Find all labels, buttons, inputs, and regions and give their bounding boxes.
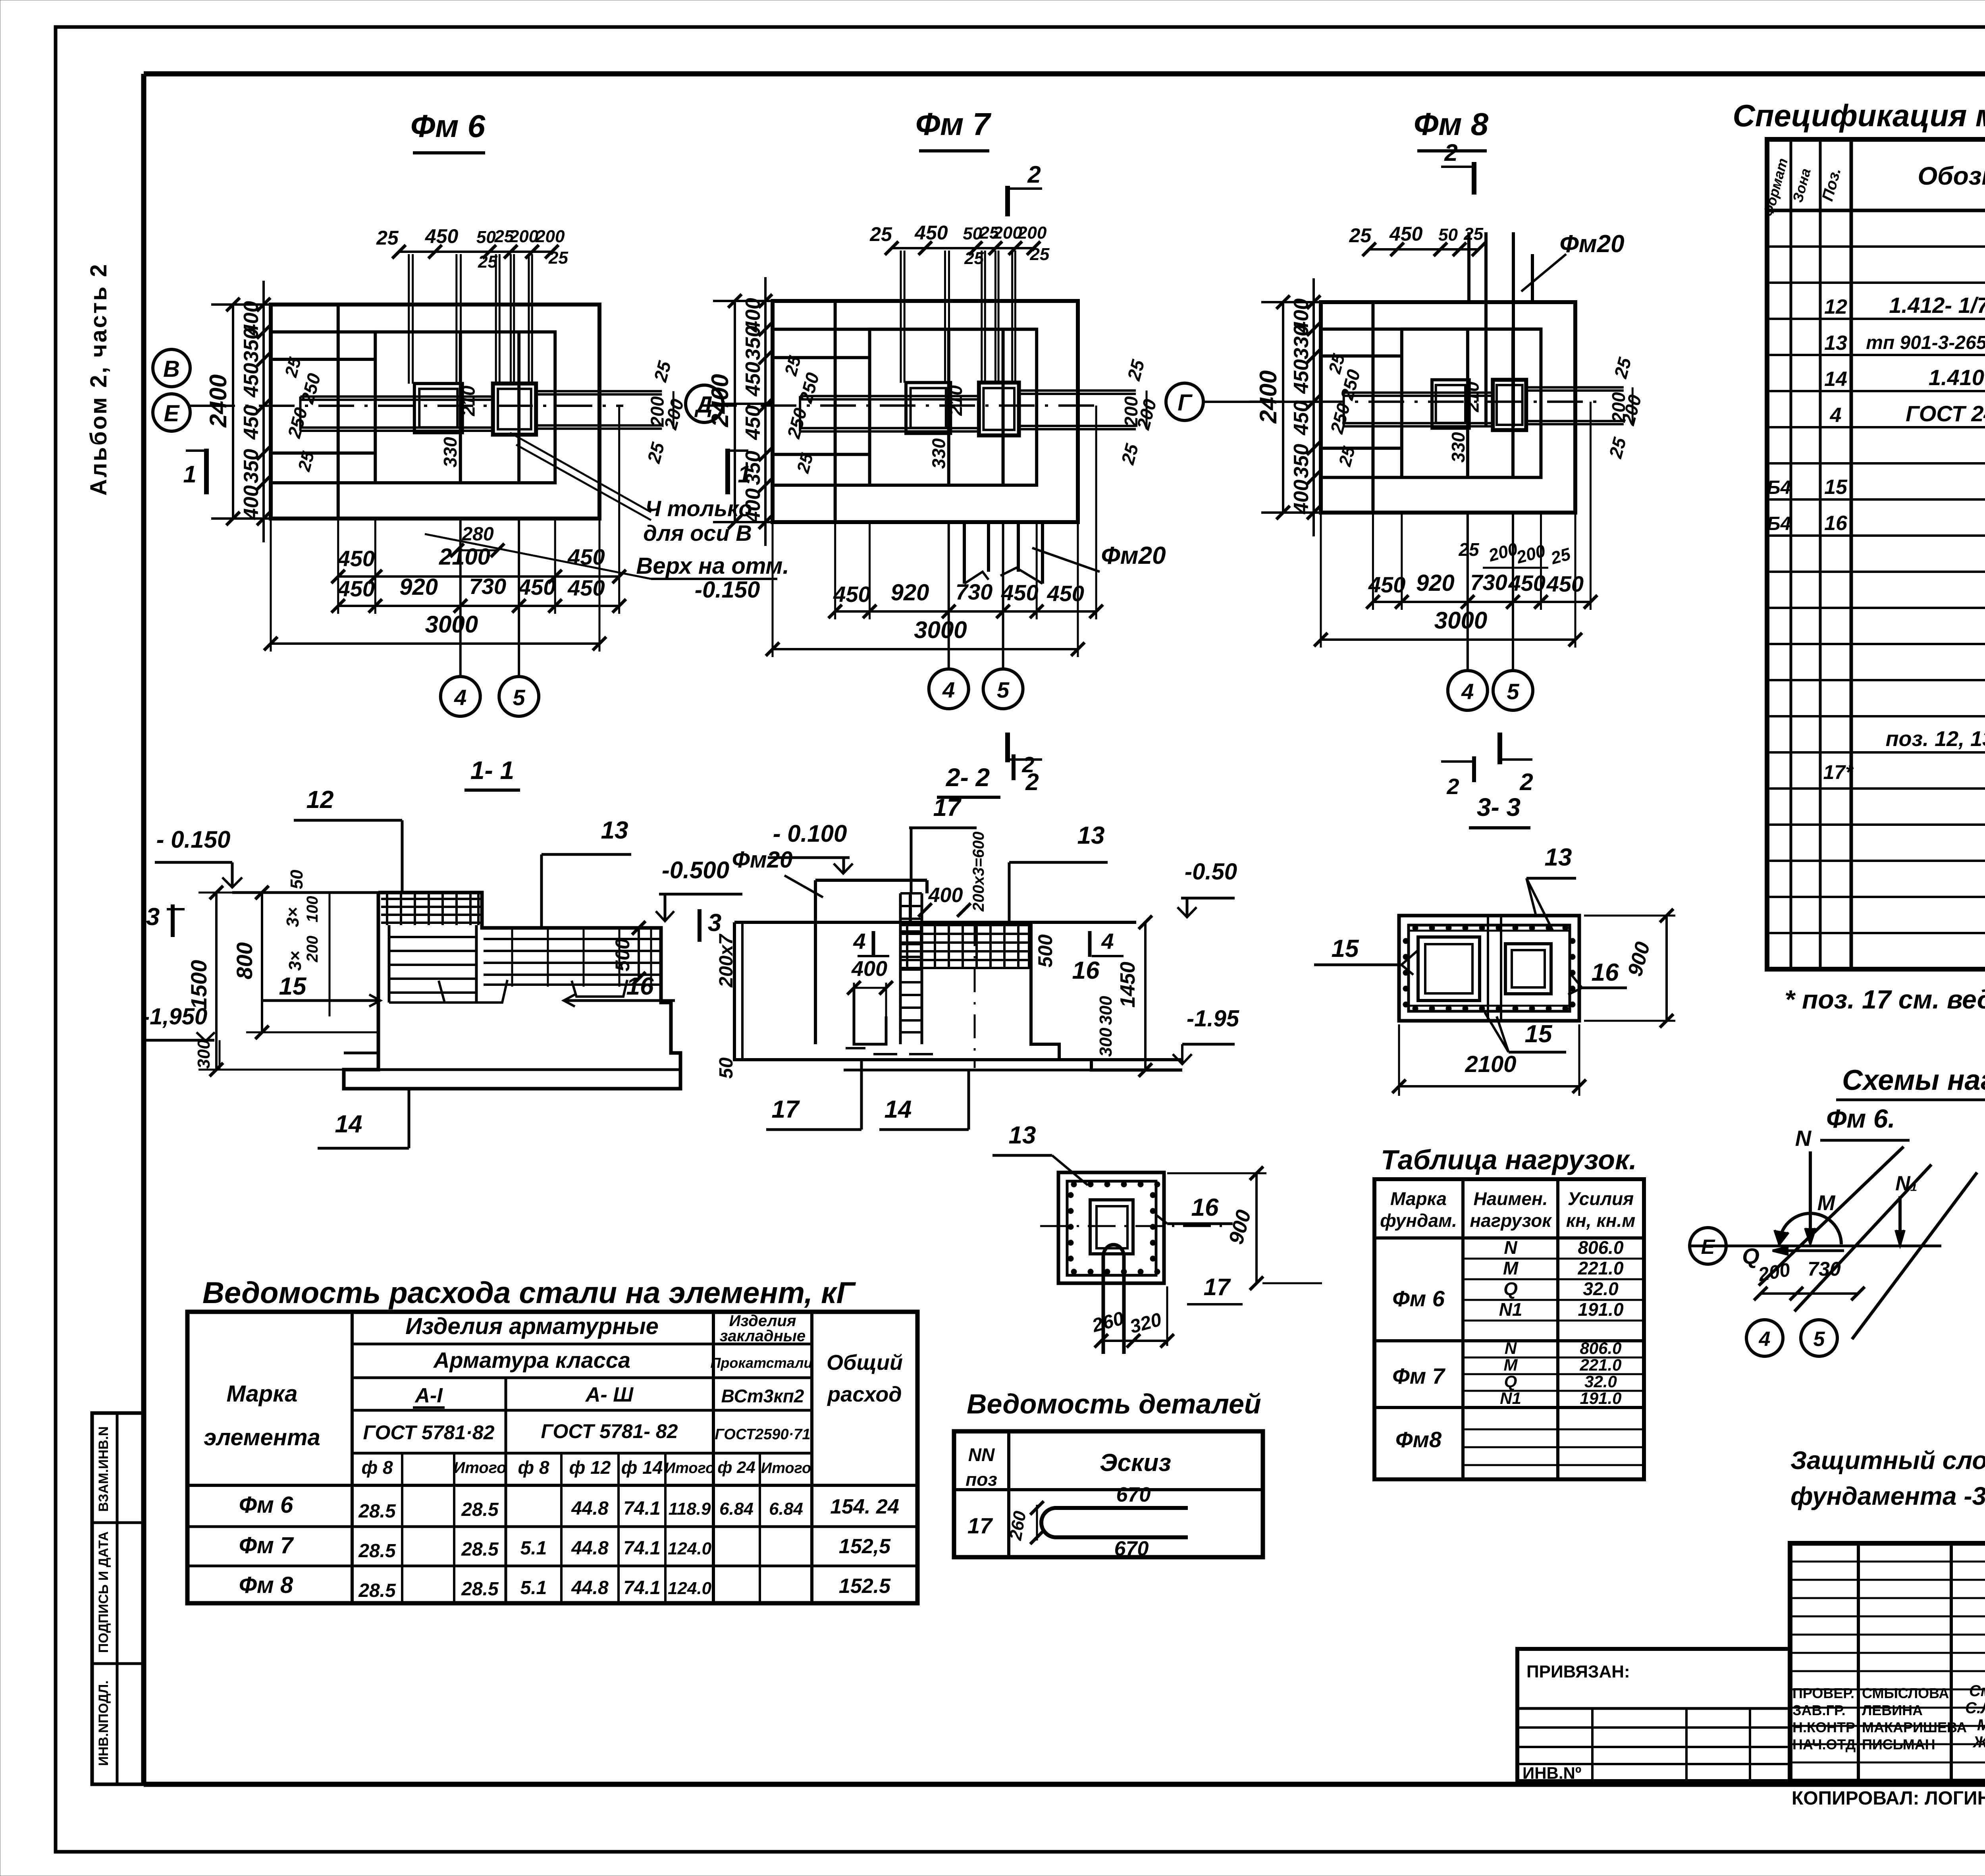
svg-text:100: 100 [304, 896, 321, 923]
steel table row Fm6 [239, 1492, 899, 1522]
plan Fm6 left bolt box [414, 384, 463, 433]
svg-text:25: 25 [869, 223, 892, 245]
svg-text:4: 4 [1461, 679, 1474, 704]
label Fm20 at Fm7 [1032, 542, 1166, 572]
section 2-2 leader 14 bottom [879, 1071, 969, 1130]
svg-text:400: 400 [928, 884, 963, 907]
svg-text:920: 920 [1416, 570, 1455, 596]
svg-text:N1: N1 [1499, 1299, 1522, 1320]
section 4-4 leader 16 [1156, 1194, 1233, 1224]
section 1-1 dim 1500 [186, 886, 381, 1076]
svg-text:200х3=600: 200х3=600 [970, 831, 987, 912]
section mark 1 left of Fm6 [183, 449, 206, 494]
svg-text:Общий: Общий [827, 1351, 903, 1375]
svg-text:ВЗАМ.ИНВ.N: ВЗАМ.ИНВ.N [96, 1426, 111, 1512]
svg-text:поз: поз [966, 1469, 997, 1490]
svg-text:ИНВ.Nº: ИНВ.Nº [1522, 1764, 1581, 1782]
svg-text:С.Левик: С.Левик [1965, 1699, 1985, 1717]
section mark 2 bottom of Fm8 [1500, 733, 1533, 795]
svg-text:СМЫСЛОВА: СМЫСЛОВА [1862, 1685, 1949, 1701]
privyazan box [1517, 1649, 1790, 1782]
svg-text:16: 16 [626, 973, 654, 1000]
plan Fm8 bottom dim rows [1314, 402, 1597, 648]
svg-text:13: 13 [1824, 332, 1847, 355]
plan Fm7 bottom stem [964, 522, 1043, 584]
svg-text:350: 350 [1290, 444, 1313, 478]
section mark 2 above 3-3 [1441, 756, 1474, 799]
svg-text:N: N [1795, 1126, 1812, 1151]
plan Fm8 top channel to Fm20 [1469, 232, 1532, 427]
svg-text:50: 50 [716, 1057, 737, 1079]
section 4-4 dims 260 320 [1089, 1286, 1174, 1348]
plan Fm7 dims 210 330 [928, 385, 966, 469]
plan Fm7 anchor rails left [800, 396, 979, 432]
svg-text:16: 16 [1592, 959, 1619, 986]
load scheme diagonals [1759, 1147, 1977, 1339]
load schemes title [1836, 1064, 1985, 1100]
svg-text:200х7: 200х7 [716, 933, 737, 988]
svg-text:расход: расход [827, 1382, 902, 1406]
svg-text:Г: Г [1178, 390, 1193, 416]
section 2-2 level -0.100 [768, 820, 853, 873]
svg-text:806.0: 806.0 [1578, 1237, 1624, 1258]
svg-text:6.84: 6.84 [719, 1499, 754, 1519]
svg-text:-0.50: -0.50 [1185, 859, 1237, 885]
svg-text:ф 14: ф 14 [621, 1457, 663, 1478]
svg-text:Фм 6: Фм 6 [410, 108, 486, 144]
svg-text:300: 300 [1096, 996, 1116, 1025]
details list title [967, 1388, 1261, 1419]
svg-text:13: 13 [1545, 844, 1572, 871]
section 1-1 rebar cage [381, 894, 660, 1003]
svg-text:450: 450 [914, 222, 948, 244]
section 4-4 leader 13 [992, 1122, 1088, 1185]
svg-text:450: 450 [518, 575, 555, 600]
svg-text:2100: 2100 [1465, 1051, 1516, 1077]
section 1-1 leader 14 [318, 1089, 409, 1148]
svg-text:800: 800 [232, 942, 257, 979]
section 2-2 level -0.50 right [1178, 859, 1237, 917]
section 1-1 dim 800 [232, 886, 377, 1039]
section 4-4 outer rect [1058, 1172, 1164, 1283]
svg-text:28.5: 28.5 [461, 1579, 499, 1600]
svg-text:730: 730 [956, 579, 992, 604]
section 2-2 level -1.95 [1173, 1006, 1239, 1064]
svg-text:44.8: 44.8 [571, 1577, 609, 1598]
plan Fm8 slab step lines [1321, 329, 1541, 478]
svg-text:330: 330 [440, 437, 461, 467]
svg-text:3: 3 [708, 909, 721, 937]
svg-text:15: 15 [1525, 1020, 1553, 1048]
svg-text:17*: 17* [1823, 761, 1854, 783]
svg-text:450: 450 [1508, 571, 1545, 596]
section 1-1 level -0.150 [155, 826, 242, 887]
svg-text:3000: 3000 [1434, 607, 1487, 634]
svg-text:1.412- 1/77 - В.3 - 040: 1.412- 1/77 - В.3 - 040 [1889, 293, 1985, 318]
svg-text:Эскиз: Эскиз [1100, 1449, 1171, 1477]
svg-text:200: 200 [1017, 223, 1047, 243]
svg-text:Арматура класса: Арматура класса [433, 1348, 630, 1373]
plan Fm6 top dim group [376, 225, 568, 272]
kopiroval note [1792, 1788, 1985, 1809]
section 2-2 dim 500 rot [1034, 934, 1056, 968]
svg-text:16: 16 [1191, 1194, 1219, 1221]
svg-text:ПРОВЕР.: ПРОВЕР. [1792, 1685, 1854, 1701]
section 3-3 leader 16 right [1568, 959, 1627, 995]
section 4-4 axis line [1040, 1225, 1227, 1227]
svg-text:ПРИВЯЗАН:: ПРИВЯЗАН: [1526, 1662, 1630, 1681]
plan Fm7 right dims 25 200 200 25 [1117, 357, 1160, 467]
svg-text:350: 350 [240, 449, 263, 483]
section 3-3 leader 13 [1526, 844, 1576, 931]
plan Fm7 anchor bolt verticals from top [901, 251, 1015, 383]
section 2-2 dims 300 300 [1096, 996, 1116, 1057]
svg-text:КОПИРОВАЛ: ЛОГИНОВА: КОПИРОВАЛ: ЛОГИНОВА [1792, 1788, 1985, 1809]
svg-text:5: 5 [513, 685, 526, 710]
svg-text:200: 200 [304, 936, 321, 963]
svg-text:-0.500: -0.500 [662, 857, 729, 883]
svg-text:17: 17 [1204, 1274, 1231, 1300]
plan Fm6 anchor rails right [536, 391, 662, 428]
svg-text:500: 500 [1034, 934, 1056, 968]
plan Fm7 slab step lines [773, 329, 1037, 485]
spec row pos 15 [1767, 476, 1985, 499]
section 1-1 dim 300 [194, 1039, 220, 1070]
svg-text:17: 17 [933, 794, 962, 821]
load scheme force N1 [1895, 1172, 1918, 1245]
svg-text:Ведомость деталей: Ведомость деталей [967, 1388, 1261, 1419]
plan Fm8 dim 2400 vertical [1255, 295, 1329, 519]
plan Fm8 grid circle 5 [1493, 671, 1533, 710]
steel table row Fm7 [239, 1533, 891, 1562]
svg-text:124.0: 124.0 [668, 1539, 712, 1558]
plan Fm8 anchor rails left [1344, 393, 1493, 426]
svg-text:для оси В: для оси В [643, 521, 752, 546]
svg-text:4: 4 [942, 677, 955, 702]
svg-text:2: 2 [1519, 769, 1533, 795]
section 1-1 section mark 3 left [146, 903, 185, 937]
svg-text:50: 50 [476, 228, 496, 247]
plan Fm8 pedestal rectangle [1402, 329, 1541, 478]
svg-text:4: 4 [454, 685, 466, 710]
svg-text:17: 17 [967, 1513, 993, 1538]
svg-text:152,5: 152,5 [839, 1535, 891, 1558]
svg-text:Д: Д [694, 392, 713, 418]
plan Fm6 dims 210 330 [440, 386, 479, 468]
svg-text:5.1: 5.1 [520, 1538, 547, 1559]
plan Fm7 left bolt box [906, 383, 950, 434]
section 2-2 leader 16 [1072, 957, 1100, 984]
svg-text:Итого: Итого [761, 1460, 811, 1477]
plan Fm6 internal verticals [338, 305, 519, 519]
section 2-2 mark 4 left [853, 929, 889, 957]
svg-text:450: 450 [833, 582, 870, 607]
svg-text:ф 12: ф 12 [569, 1457, 611, 1478]
spec row pos 14 [1824, 364, 1985, 397]
svg-text:ГОСТ 5781·82: ГОСТ 5781·82 [363, 1421, 494, 1444]
load scheme label Fm6 [1820, 1104, 1910, 1140]
svg-text:3×: 3× [283, 907, 303, 927]
details list row 17 sketch [967, 1483, 1188, 1560]
svg-text:330: 330 [1448, 432, 1469, 463]
section 4-4 rebar dots [1068, 1182, 1160, 1274]
svg-text:450: 450 [337, 576, 375, 601]
plan Fm7 grid circle 4 [929, 669, 969, 709]
svg-text:2: 2 [1027, 161, 1041, 188]
section 4-4 U-bar pin [1103, 1245, 1124, 1354]
svg-text:221.0: 221.0 [1577, 1258, 1624, 1278]
svg-text:154. 24: 154. 24 [830, 1495, 899, 1518]
section 2-2 leader 17 top [909, 794, 977, 893]
svg-text:2: 2 [1021, 752, 1034, 777]
title specification [1733, 98, 1985, 133]
section 1-1 level -0.500 [656, 857, 742, 921]
section mark 2 bottom of Fm7 [1008, 733, 1042, 795]
svg-text:фундам.: фундам. [1380, 1210, 1457, 1231]
plan Fm8 small dims 25-250-250-25 [1325, 352, 1364, 469]
section 2-2 dim 200x7 left [716, 922, 742, 1060]
plan Fm7 pedestal rectangle [870, 329, 1037, 485]
section 3-3 leader 15 bottom [1485, 1012, 1566, 1052]
spec row pos 4 [1830, 401, 1985, 427]
section mark 2 top of Fm8 [1441, 139, 1474, 195]
axis circle A [686, 385, 773, 422]
plan Fm8 left bolt box [1432, 380, 1469, 428]
svg-text:ГОСТ 5781- 82: ГОСТ 5781- 82 [541, 1420, 678, 1442]
section 2-2 leader 13 [1009, 822, 1108, 925]
svg-text:25: 25 [1463, 224, 1483, 244]
section 4-4 label 17 [1187, 1274, 1243, 1304]
svg-text:ПИСЬМАН: ПИСЬМАН [1862, 1736, 1935, 1753]
svg-text:Спецификация монолитных фундам: Спецификация монолитных фундаментов Фм6.… [1733, 98, 1985, 133]
plan Fm6 grid circle 5 [499, 677, 539, 716]
svg-text:Марка: Марка [226, 1381, 297, 1407]
svg-text:44.8: 44.8 [571, 1498, 609, 1519]
svg-text:3000: 3000 [914, 617, 967, 643]
details list grid [954, 1431, 1263, 1557]
svg-text:2400: 2400 [205, 374, 231, 428]
section 2-2 dim 1450 [1116, 916, 1152, 1077]
svg-text:Усилия: Усилия [1568, 1188, 1634, 1209]
plan Fm7 dim row-heights vertical [742, 277, 772, 546]
svg-text:Наимен.: Наимен. [1473, 1188, 1548, 1209]
svg-text:25: 25 [478, 252, 497, 272]
svg-text:14: 14 [885, 1096, 912, 1123]
section 2-2 rebar grid [846, 893, 1031, 1068]
svg-text:920: 920 [399, 574, 438, 600]
section 2-2 dim 200x3=600 [970, 831, 987, 912]
svg-text:50: 50 [1438, 225, 1458, 245]
svg-text:кн, кн.м: кн, кн.м [1566, 1210, 1636, 1231]
svg-text:32.0: 32.0 [1584, 1372, 1617, 1391]
svg-text:450: 450 [1389, 223, 1423, 245]
plan Fm6 axis line [199, 405, 623, 407]
svg-text:25: 25 [1458, 539, 1480, 560]
svg-text:28.5: 28.5 [461, 1499, 499, 1520]
loads table Fm6 block [1392, 1237, 1624, 1320]
svg-text:118.9: 118.9 [669, 1499, 711, 1519]
svg-text:тп 901-3-265.89 КЖ.И71.0.0.0: тп 901-3-265.89 КЖ.И71.0.0.0 [1866, 332, 1985, 353]
svg-text:Б4: Б4 [1767, 513, 1791, 534]
svg-text:M: M [1817, 1191, 1836, 1215]
svg-text:ф 8: ф 8 [518, 1457, 549, 1478]
section 3-3 outer rect [1399, 916, 1579, 1021]
plan Fm6 pedestal rectangle [375, 332, 555, 483]
section 1-1 level -1.950 [142, 1004, 215, 1041]
svg-text:450: 450 [1047, 581, 1084, 606]
svg-text:450: 450 [567, 575, 605, 600]
section 1-1 dims 50 3x 3x 200 100 [283, 870, 330, 1016]
svg-text:А- Ш: А- Ш [585, 1383, 634, 1406]
svg-text:Итого: Итого [665, 1460, 715, 1477]
load scheme force N [1795, 1126, 1815, 1244]
svg-text:- 0.150: - 0.150 [156, 826, 231, 853]
svg-text:Фм 8: Фм 8 [239, 1572, 293, 1598]
plan Fm8 anchor bolt verticals from top [0, 0, 0, 0]
svg-text:Ведомость расхода стали на эле: Ведомость расхода стали на элемент, кГ [202, 1276, 856, 1310]
plan Fm7 outer outline [773, 301, 1078, 522]
section 4-4 dim 900 [1167, 1166, 1322, 1290]
svg-text:16: 16 [1072, 957, 1100, 984]
section 1-1 leader 13 [542, 817, 631, 929]
svg-text:1450: 1450 [1116, 962, 1139, 1008]
section 2-2 dim 400 top [918, 884, 971, 917]
axis circle V [153, 349, 190, 387]
svg-text:5: 5 [997, 677, 1010, 702]
plan Fm7 anchor rails right [1019, 391, 1136, 429]
svg-text:221.0: 221.0 [1579, 1355, 1621, 1374]
plan Fm8 dims 210 330 [1448, 382, 1482, 463]
svg-text:74.1: 74.1 [623, 1538, 660, 1559]
svg-text:210: 210 [1462, 382, 1482, 413]
plan Fm7 column axis verticals [949, 522, 1003, 670]
plan Fm8 axis line [1249, 401, 1599, 403]
svg-text:фундамента -35мм, для остальн: фундамента -35мм, для остальной- 20мм. [1790, 1482, 1985, 1510]
svg-text:1: 1 [183, 461, 196, 488]
svg-text:Верх на отм.: Верх на отм. [636, 553, 789, 579]
svg-text:12: 12 [1824, 295, 1847, 318]
svg-text:ИНВ.NПОДЛ.: ИНВ.NПОДЛ. [96, 1680, 111, 1766]
svg-text:210: 210 [945, 385, 966, 416]
svg-text:450: 450 [1290, 359, 1313, 394]
axis circle G [1166, 383, 1321, 420]
svg-text:191.0: 191.0 [1578, 1299, 1624, 1320]
svg-text:730: 730 [1808, 1258, 1841, 1280]
svg-text:поз. 12, 13, 14, 15, 16 -: поз. 12, 13, 14, 15, 16 - [1886, 727, 1985, 751]
plan Fm6 right dims 25 200 200 25 [643, 359, 688, 466]
title Fm8 [1414, 106, 1489, 151]
specification header texts [1760, 154, 1985, 218]
svg-text:13: 13 [1077, 822, 1105, 849]
svg-text:12: 12 [306, 786, 334, 814]
svg-text:2- 2: 2- 2 [946, 763, 990, 792]
svg-text:74.1: 74.1 [623, 1577, 660, 1598]
section 2-2 dim 50 left [716, 1057, 737, 1079]
section 1-1 body outline [344, 893, 680, 1089]
plan Fm6 right bolt box [493, 384, 536, 435]
plan Fm6 bottom dim rows [264, 406, 626, 652]
section 1-1 dim 500 right [611, 921, 646, 985]
svg-text:450: 450 [1001, 580, 1038, 605]
svg-text:- 0.100: - 0.100 [773, 820, 847, 847]
plan Fm8 column axis verticals [1468, 513, 1513, 671]
svg-text:14: 14 [335, 1111, 362, 1138]
svg-text:28.5: 28.5 [461, 1539, 499, 1560]
section 2-2 top slab line [734, 921, 1136, 924]
section 1-1 title [464, 756, 520, 790]
svg-text:50: 50 [287, 870, 306, 889]
svg-text:-1.95: -1.95 [1187, 1006, 1239, 1032]
section 3-3 dim 2100 [1392, 1024, 1586, 1096]
svg-text:* поз. 17 см. ведомость детале: * поз. 17 см. ведомость деталей на данно… [1785, 985, 1985, 1014]
svg-text:730: 730 [469, 574, 506, 599]
svg-text:Таблица нагрузок.: Таблица нагрузок. [1381, 1144, 1637, 1175]
plan Fm6 dim row-heights vertical [240, 281, 270, 542]
svg-text:670: 670 [1116, 1483, 1151, 1506]
plan Fm7 small dims 25-250-250-25 [781, 354, 823, 476]
plan Fm8 bottom dim 25 200 200 25 [1458, 539, 1573, 569]
svg-text:Фм 6.: Фм 6. [1826, 1104, 1895, 1133]
svg-text:4: 4 [1101, 929, 1114, 954]
svg-text:350: 350 [742, 451, 765, 485]
svg-text:400: 400 [742, 488, 765, 523]
svg-text:13: 13 [601, 817, 628, 844]
title Fm6 [410, 108, 486, 153]
svg-text:450: 450 [742, 362, 765, 397]
section 2-2 upper channel walls [815, 880, 927, 1044]
section 1-1 top surface left stub [232, 891, 378, 894]
plan Fm8 dim row-heights vertical [1290, 278, 1320, 536]
svg-text:ЗАВ.ГР.: ЗАВ.ГР. [1792, 1702, 1846, 1718]
svg-text:330: 330 [928, 438, 949, 469]
svg-text:элемента: элемента [204, 1425, 320, 1450]
svg-text:152.5: 152.5 [839, 1575, 891, 1598]
svg-text:Мак: Мак [1977, 1716, 1985, 1734]
svg-text:16: 16 [1824, 512, 1848, 535]
svg-text:15: 15 [1332, 935, 1359, 962]
svg-text:Q: Q [1504, 1372, 1517, 1391]
svg-text:15: 15 [1824, 476, 1848, 499]
plan Fm7 top dim group [869, 222, 1050, 268]
svg-text:Ч только: Ч только [645, 496, 752, 521]
section 4-4 inner squares [1090, 1200, 1133, 1254]
svg-text:ГОСТ2590·71: ГОСТ2590·71 [715, 1426, 810, 1443]
loads table Fm8 block [1395, 1427, 1442, 1452]
svg-text:ф 24: ф 24 [717, 1458, 755, 1477]
svg-text:Ж с~: Ж с~ [1972, 1733, 1985, 1751]
plan Fm8 anchor rails right [1526, 388, 1624, 424]
svg-text:300: 300 [194, 1039, 214, 1069]
svg-text:ЛЕВИНА: ЛЕВИНА [1862, 1702, 1923, 1718]
plan Fm6 anchor rails left [301, 397, 493, 431]
plan Fm8 right bolt box [1493, 380, 1526, 430]
svg-text:15: 15 [279, 973, 307, 1000]
svg-text:200: 200 [509, 227, 539, 246]
svg-text:Q: Q [1503, 1278, 1518, 1299]
svg-text:Смысл: Смысл [1969, 1682, 1985, 1700]
svg-text:Н.КОНТР: Н.КОНТР [1792, 1719, 1855, 1735]
svg-text:450: 450 [425, 225, 459, 247]
plan Fm6 outer outline [271, 305, 599, 519]
svg-text:730: 730 [1470, 570, 1507, 595]
svg-text:ПОДПИСЬ И ДАТА: ПОДПИСЬ И ДАТА [96, 1531, 111, 1653]
svg-text:Схемы нагрузок на фундаменты.: Схемы нагрузок на фундаменты. [1842, 1064, 1985, 1096]
svg-text:M: M [1503, 1258, 1519, 1278]
plan Fm6 grid circle 4 [441, 677, 480, 716]
svg-text:Фм20: Фм20 [1559, 230, 1624, 258]
plan Fm6 anchor bolt verticals from top [409, 254, 532, 384]
svg-text:400: 400 [240, 485, 263, 520]
